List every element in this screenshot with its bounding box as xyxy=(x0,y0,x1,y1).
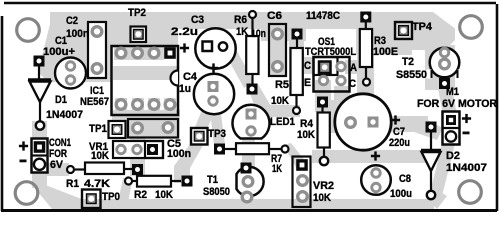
svg-text:1N4007: 1N4007 xyxy=(446,162,487,174)
svg-text:NE567: NE567 xyxy=(80,96,109,108)
svg-text:10K: 10K xyxy=(91,150,109,162)
svg-text:1u: 1u xyxy=(179,83,191,95)
svg-text:LED1: LED1 xyxy=(270,116,295,128)
svg-text:TCRT5000L: TCRT5000L xyxy=(305,46,356,58)
svg-text:1N4007: 1N4007 xyxy=(46,109,83,121)
svg-text:10K: 10K xyxy=(297,129,315,141)
svg-text:S8050: S8050 xyxy=(203,186,230,198)
svg-text:TP0: TP0 xyxy=(102,191,120,203)
svg-text:C2: C2 xyxy=(66,15,78,27)
svg-text:E: E xyxy=(304,77,311,89)
svg-text:1K: 1K xyxy=(272,163,282,175)
svg-text:100u+: 100u+ xyxy=(43,46,75,58)
svg-text:T1: T1 xyxy=(207,174,218,186)
svg-text:TP1: TP1 xyxy=(89,123,107,135)
svg-text:D1: D1 xyxy=(55,94,67,106)
svg-text:C: C xyxy=(349,78,356,90)
svg-text:C8: C8 xyxy=(399,173,411,185)
svg-text:1K: 1K xyxy=(236,26,248,38)
svg-text:100u: 100u xyxy=(390,188,412,200)
svg-text:10n: 10n xyxy=(251,28,266,40)
svg-text:FOR 6V MOTOR: FOR 6V MOTOR xyxy=(417,98,497,110)
svg-text:TP4: TP4 xyxy=(412,21,433,33)
svg-text:11478C: 11478C xyxy=(306,10,340,22)
svg-text:10K: 10K xyxy=(155,189,173,201)
svg-text:2.2u: 2.2u xyxy=(171,26,198,38)
svg-text:R5: R5 xyxy=(275,79,289,91)
svg-text:TP2: TP2 xyxy=(128,7,146,19)
svg-text:10K: 10K xyxy=(313,192,331,204)
svg-text:6V: 6V xyxy=(50,159,64,171)
svg-text:10K: 10K xyxy=(271,95,289,107)
svg-text:220u: 220u xyxy=(389,137,410,149)
svg-text:100E: 100E xyxy=(373,46,398,58)
svg-text:C4: C4 xyxy=(183,71,198,83)
svg-text:100n: 100n xyxy=(66,28,89,40)
svg-text:C3: C3 xyxy=(191,14,204,26)
svg-text:VR2: VR2 xyxy=(313,180,334,192)
svg-text:S8550: S8550 xyxy=(396,69,427,81)
svg-text:M1: M1 xyxy=(446,86,459,98)
svg-text:4.7K: 4.7K xyxy=(84,178,110,190)
svg-text:R2: R2 xyxy=(134,189,147,201)
svg-text:D2: D2 xyxy=(446,150,460,162)
svg-text:R6: R6 xyxy=(234,14,247,26)
svg-text:C6: C6 xyxy=(267,10,282,22)
svg-text:100n: 100n xyxy=(167,148,191,160)
svg-text:R1: R1 xyxy=(66,178,79,190)
svg-text:A: A xyxy=(350,62,357,74)
svg-text:TP3: TP3 xyxy=(208,128,226,140)
svg-text:C: C xyxy=(304,60,311,72)
svg-text:T2: T2 xyxy=(402,56,414,68)
